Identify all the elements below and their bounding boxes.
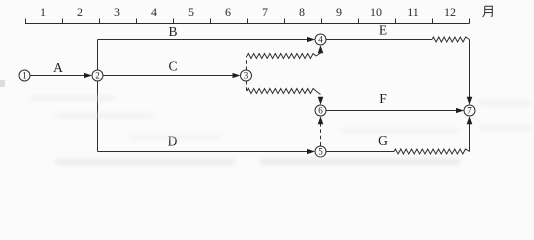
svg-text:F: F xyxy=(379,91,387,106)
svg-text:6: 6 xyxy=(225,5,231,19)
wire dashed link node 3 down to float wave xyxy=(246,81,248,91)
svg-text:3: 3 xyxy=(114,5,120,19)
wire E drop down into node 7 xyxy=(469,40,471,98)
node 3 xyxy=(241,70,252,81)
svg-text:G: G xyxy=(378,133,388,148)
svg-text:C: C xyxy=(168,59,177,74)
wire dashed link node 3 up to float wave xyxy=(246,56,248,70)
arrowhead dummy into node 6 bottom xyxy=(318,116,324,124)
arrowhead B into node 4 xyxy=(307,37,315,42)
wire float wave node 3 to node 4 xyxy=(247,54,316,59)
svg-text:1: 1 xyxy=(40,5,46,19)
svg-text:2: 2 xyxy=(77,5,83,19)
wire activity G solid part from node 5 xyxy=(326,151,394,153)
wire riser node 2 up to B row xyxy=(97,40,99,71)
ruler month numbers xyxy=(40,5,456,19)
arrowhead float into node 4 bottom xyxy=(318,45,324,53)
svg-text:4: 4 xyxy=(151,5,157,19)
svg-text:7: 7 xyxy=(262,5,268,19)
node 7 xyxy=(464,105,475,116)
svg-text:12: 12 xyxy=(444,5,456,19)
svg-text:9: 9 xyxy=(336,5,342,19)
node 6 xyxy=(315,105,326,116)
svg-text:5: 5 xyxy=(188,5,194,19)
svg-text:8: 8 xyxy=(299,5,305,19)
arrowhead C into node 3 xyxy=(233,73,241,78)
svg-text:10: 10 xyxy=(370,5,382,19)
label month glyph xyxy=(483,6,493,17)
wire activity D horizontal to node 5 xyxy=(98,151,308,153)
wire connector wave to arrow under node 4 xyxy=(316,53,321,56)
wire activity F from node 6 to node 7 xyxy=(326,110,457,112)
wire dashed dummy node 5 to node 6 xyxy=(320,124,322,146)
wire connector wave to arrow above node 6 xyxy=(316,91,321,95)
wire free float wave of G xyxy=(394,149,470,154)
svg-text:4: 4 xyxy=(318,35,323,45)
svg-text:5: 5 xyxy=(318,147,323,157)
wire activity A from node 1 to node 2 xyxy=(30,75,85,77)
svg-text:1: 1 xyxy=(22,71,27,81)
wire riser node 2 down to D row xyxy=(97,81,99,152)
svg-text:3: 3 xyxy=(244,71,249,81)
wire activity B horizontal to node 4 xyxy=(98,39,308,41)
node 5 xyxy=(315,146,326,157)
wire activity E solid part from node 4 xyxy=(326,39,432,41)
arrowhead E into node 7 top xyxy=(467,97,473,105)
timeline ruler baseline xyxy=(25,23,470,25)
node 2 xyxy=(92,70,103,81)
node 4 xyxy=(315,34,326,45)
scan smudge left edge xyxy=(0,80,5,87)
svg-text:A: A xyxy=(53,60,63,75)
arrowhead D into node 5 xyxy=(307,149,315,154)
wire G rise up into node 7 xyxy=(469,124,471,152)
svg-text:11: 11 xyxy=(407,5,419,19)
arrowhead A into node 2 xyxy=(84,73,92,78)
svg-text:2: 2 xyxy=(95,71,100,81)
svg-text:E: E xyxy=(379,23,387,38)
ruler tick marks xyxy=(26,19,470,24)
svg-text:7: 7 xyxy=(467,106,472,116)
svg-text:6: 6 xyxy=(318,106,323,116)
svg-text:B: B xyxy=(168,24,177,39)
node 1 xyxy=(19,70,30,81)
wire float wave node 3 to node 6 xyxy=(247,89,316,94)
arrowhead G into node 7 bottom xyxy=(467,116,473,124)
wire activity C from node 2 to node 3 xyxy=(103,75,233,77)
wire free float wave of E xyxy=(432,37,470,42)
arrowhead float into node 6 top xyxy=(318,97,324,105)
arrowhead F into node 7 xyxy=(456,108,464,113)
